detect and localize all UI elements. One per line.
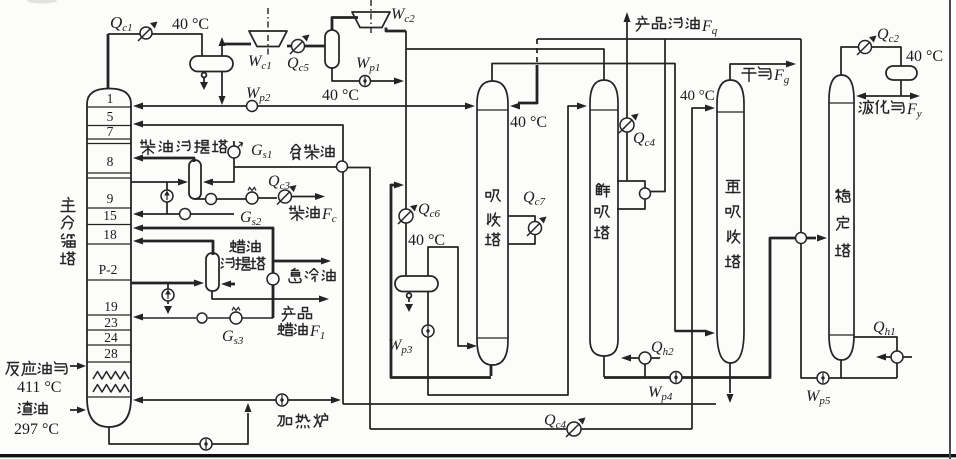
label 再吸收塔 vertical: [726, 181, 741, 268]
wire: D3 liquid reflux and LPG product: [866, 80, 910, 96]
stabilizer column 稳定塔: [829, 75, 854, 360]
junction circle stabilizer feed: [796, 233, 807, 244]
water drain stub under drum: [202, 73, 207, 78]
svg-text:28: 28: [104, 346, 118, 361]
junction circle diesel reflux: [180, 209, 191, 220]
svg-text:18: 18: [103, 227, 117, 242]
wire: Wc2 discharge to rich-gas header: [386, 28, 406, 32]
svg-text:40 °C: 40 °C: [906, 48, 943, 65]
svg-text:40 °C: 40 °C: [510, 114, 547, 131]
bottom frame line: [0, 454, 956, 457]
decorative smudge skipped: [27, 0, 57, 4]
pump Wp3: [422, 325, 434, 337]
absorber chord lines: [477, 110, 508, 338]
wire: wax product line: [212, 291, 319, 299]
compressor W_c1: [249, 31, 287, 47]
svg-text:40 °C: 40 °C: [172, 16, 209, 33]
label 产品蜡油F1: [278, 306, 325, 342]
svg-text:40 °C: 40 °C: [680, 88, 715, 104]
svg-text:Fy: Fy: [906, 101, 922, 120]
svg-text:297 °C: 297 °C: [14, 421, 59, 438]
label 反应油气: [6, 361, 67, 375]
wire: diesel draw to stripper: [131, 181, 178, 183]
wire: lean diesel line to Qc4: [234, 167, 370, 429]
pump Wp1: [360, 76, 371, 87]
svg-text:5: 5: [107, 109, 114, 124]
LPG drum D3: [886, 66, 917, 80]
label 急冷油: [289, 269, 335, 283]
wire: rich absorption oil return line y404: [143, 125, 716, 404]
junction circle diesel bottoms: [206, 194, 217, 205]
svg-text:Qh2: Qh2: [651, 339, 674, 358]
stabilizer chord lines: [829, 103, 854, 335]
wire: diesel circulating line y214: [143, 213, 234, 215]
desorber chord line: [590, 109, 618, 111]
wire: Qc4 cooler line bottom: [370, 428, 692, 430]
label 干气Fg: [742, 67, 790, 86]
label 吸收塔 vertical: [486, 190, 501, 246]
svg-text:7: 7: [107, 124, 114, 139]
svg-text:Gs3: Gs3: [222, 328, 244, 347]
svg-text:Qc2: Qc2: [877, 26, 899, 45]
wire: product gasoline Fq riser with Qc4 branch: [626, 22, 628, 181]
wire: Wp3 drum liquid via pump to desorber top: [428, 106, 577, 395]
condensate drum W_p3: [395, 276, 438, 292]
svg-text:Wp1: Wp1: [356, 55, 380, 74]
desorber column 解吸塔: [590, 80, 618, 356]
svg-text:P-2: P-2: [99, 262, 118, 277]
wire: bypass with control valve: [166, 182, 168, 214]
svg-text:F1: F1: [309, 323, 325, 342]
svg-text:Fg: Fg: [773, 67, 790, 86]
label 主分馏塔 vertical: [61, 198, 76, 265]
pump Wp2: [247, 101, 258, 112]
steam valve Gs2: [246, 188, 258, 205]
svg-text:Qh1: Qh1: [873, 319, 896, 338]
wire: Qh1 reboiler loop: [854, 337, 912, 378]
wire: drum vapor to compressor Wc1: [221, 42, 223, 56]
right frame line: [949, 0, 951, 459]
svg-text:Qc5: Qc5: [287, 55, 309, 74]
svg-text:Wc1: Wc1: [248, 53, 272, 72]
junction circle quench line: [267, 273, 279, 285]
svg-text:40 °C: 40 °C: [408, 232, 445, 249]
heat exchanger Qc7: [527, 217, 547, 237]
wire: overhead line to condenser drum: [108, 34, 202, 56]
svg-text:Wp4: Wp4: [648, 384, 673, 403]
wire: stabilizer overhead LPG through Qc2 to drum D3: [841, 47, 901, 75]
heat exchanger Qc6: [398, 205, 418, 225]
main column tray lines: [87, 107, 131, 397]
svg-text:Qc6: Qc6: [418, 201, 440, 220]
svg-text:411 °C: 411 °C: [17, 379, 61, 396]
wire: absorber overhead to reabsorber bottom: [492, 64, 705, 332]
wire: Wp4 line desorber bottoms to stabilizer: [604, 238, 816, 378]
svg-text:Qc7: Qc7: [523, 189, 545, 208]
flash drum D2 (vertical): [325, 30, 339, 68]
pump Wp5: [817, 372, 829, 384]
wire: bottoms circulating line y444: [109, 413, 248, 444]
wire: wax stripper overhead return: [143, 241, 213, 255]
wire: supplementary absorbent (dashed) into absorber top: [536, 39, 538, 65]
reabsorber column 再吸收塔: [717, 80, 744, 363]
reboiler circle Qh2: [639, 352, 651, 364]
wire: Wp3 drum vapor to absorber bottom: [428, 247, 467, 346]
wire: desorber overhead to header y49: [406, 49, 604, 80]
svg-text:Fq: Fq: [701, 18, 718, 37]
wire: Gs1 steam into stripper: [213, 141, 234, 182]
label 柴油汽提塔: [141, 140, 228, 155]
wire: diesel stripper overhead return: [143, 158, 194, 162]
wire: D2 vapor to compressor Wc2: [332, 18, 358, 31]
wire: Wc1 discharge through Qc5 to drum D2: [287, 45, 325, 48]
svg-text:Qc3: Qc3: [268, 173, 290, 192]
steam valve Gs1: [228, 142, 243, 158]
svg-text:1: 1: [107, 91, 114, 106]
main column packing zigzag: [93, 372, 129, 393]
wire: Gs3 steam stub into stripper: [231, 283, 235, 286]
Wc2 shaft dash-dot: [370, 0, 372, 36]
wire: D2 liquid through pump Wp1: [332, 68, 394, 81]
junction circle slurry line: [197, 313, 207, 323]
svg-text:24: 24: [104, 330, 118, 345]
label 蜡油 (stripper): [230, 240, 260, 253]
diesel stripper vessel 柴油汽提塔: [189, 160, 201, 199]
svg-text:19: 19: [104, 299, 118, 314]
compressor W_c2: [352, 12, 390, 28]
wire: desorber bottoms and Qh2 reboiler: [604, 356, 660, 377]
label 汽提塔 (wax stripper): [221, 257, 265, 270]
svg-text:Qc4: Qc4: [633, 130, 655, 149]
wire: feed 反应油气 into column: [70, 365, 77, 367]
wire: column bottoms to heater 加热炉: [143, 399, 331, 401]
pump Wp4: [670, 372, 682, 384]
heat exchanger Qc1: [138, 22, 158, 42]
svg-text:Fc: Fc: [321, 206, 337, 225]
wire: reabsorber bottoms down to return line: [729, 363, 731, 393]
absorber column 吸收塔: [477, 81, 508, 365]
svg-text:Wp2: Wp2: [246, 85, 271, 104]
label 解吸塔 vertical: [595, 184, 610, 239]
wax stripper vessel 蜡油汽提塔: [206, 253, 219, 291]
wire: stabilizer bottoms via Wp5: [801, 39, 897, 378]
pump on bottoms line: [200, 438, 212, 450]
label 渣油: [18, 402, 47, 415]
svg-text:23: 23: [104, 315, 118, 330]
control valve on diesel draw: [161, 190, 173, 202]
wire: Qc7 intercooler loop: [508, 216, 535, 244]
reboiler circle Qh1: [891, 351, 903, 363]
control valve on wax draw: [162, 289, 174, 301]
label 稳定塔 vertical: [836, 190, 851, 257]
junction circle desorber loop: [640, 188, 651, 199]
heat exchanger Qc5: [290, 35, 310, 55]
wire: quench oil draw and return: [143, 228, 321, 318]
wire: desorber side loop upper: [617, 39, 665, 209]
svg-text:Gs1: Gs1: [251, 142, 272, 161]
svg-text:Gs2: Gs2: [240, 209, 262, 228]
wire: dry gas Fg outlet: [730, 64, 786, 80]
label 加热炉: [278, 414, 328, 428]
steam valve Gs3: [230, 308, 242, 325]
heat exchanger Qc2: [857, 36, 877, 56]
heat exchanger Qc4 lower: [566, 418, 586, 438]
wire: rich gas main vertical x406 down through Qc6 to drum Wp3: [405, 31, 407, 276]
wire: slurry return line y317: [143, 317, 273, 319]
svg-text:8: 8: [107, 154, 114, 169]
heat exchanger Qc4 upper: [619, 114, 639, 134]
label 液化气Fy: [859, 100, 922, 120]
wire: absorber bottom rich oil to rich-gas header: [490, 365, 493, 376]
wire: wax draw to stripper: [131, 282, 194, 285]
svg-text:40 °C: 40 °C: [322, 87, 359, 104]
svg-text:Wc2: Wc2: [391, 6, 415, 25]
svg-text:Wp5: Wp5: [806, 388, 831, 407]
wire: feed 渣油 into column: [70, 409, 77, 411]
wire: stabilized gasoline header y39: [537, 38, 801, 40]
drain stub under Wp3 drum: [407, 293, 412, 298]
Wc1 shaft dash-dot: [267, 8, 269, 56]
label 贫柴油: [291, 145, 335, 160]
wire: stripper bottoms diesel product line: [195, 197, 315, 200]
wire: drum liquid down to gasoline line: [221, 72, 223, 97]
svg-text:9: 9: [107, 191, 114, 206]
label 产品汽油Fq: [636, 16, 718, 37]
pump on heater line: [276, 394, 288, 406]
reabsorber chord line: [717, 111, 744, 113]
label 柴油Fc: [290, 206, 337, 225]
wire: column overhead vapor riser: [107, 34, 110, 88]
svg-text:Qc1: Qc1: [110, 13, 133, 34]
wire: bypass with valve on wax draw: [167, 283, 169, 304]
reflux drum D1: [190, 56, 233, 72]
svg-text:Qc4: Qc4: [544, 412, 566, 431]
heat exchanger Qc3: [277, 185, 297, 205]
wire: cooled lean diesel riser into reabsorber top: [692, 108, 705, 429]
svg-text:15: 15: [103, 208, 117, 223]
main fractionator column shell 主分馏塔: [87, 89, 131, 428]
wire: gasoline reflux / raw gasoline line y106: [143, 105, 465, 107]
junction circle lean diesel: [337, 161, 348, 172]
svg-text:Wp3: Wp3: [388, 337, 413, 356]
main column tray numbers: [99, 91, 118, 361]
